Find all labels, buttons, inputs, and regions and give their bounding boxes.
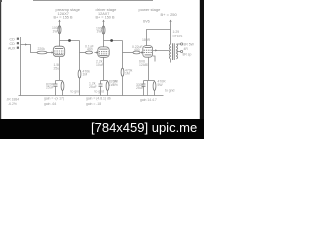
svg-text:B+ = 155 B: B+ = 155 B	[54, 15, 73, 19]
node junction dot 1	[68, 39, 71, 42]
tube V1 triode	[53, 46, 64, 56]
svg-text:to gnd: to gnd	[95, 89, 105, 93]
label cathode1 network	[46, 82, 55, 89]
wire plate2 node	[104, 40, 123, 42]
svg-text:1M: 1M	[83, 73, 88, 77]
svg-text:1W: 1W	[53, 29, 59, 33]
label cathode2 network	[89, 80, 117, 89]
node B+ stage1 arrow	[59, 20, 61, 46]
svg-text:12AB5: 12AB5	[139, 63, 149, 67]
wire cathode1	[59, 57, 61, 80]
wire input tap	[21, 45, 38, 53]
svg-text:25uF: 25uF	[46, 86, 54, 90]
svg-text:AUX: AUX	[8, 46, 16, 50]
arrow tube1 grid	[52, 51, 54, 53]
arrowhead B+ stage3	[169, 20, 171, 22]
arrow tube3 grid	[141, 51, 143, 53]
node junction dot 2	[110, 39, 113, 42]
svg-text:8R 5W: 8R 5W	[184, 42, 195, 46]
resistor R-gridleak2	[122, 53, 124, 96]
label R-plate1	[52, 26, 60, 33]
arrowhead B+ stage2	[102, 20, 104, 22]
svg-text:CD: CD	[10, 37, 16, 41]
arrow tube2 grid	[96, 51, 98, 53]
terminal speaker plus	[181, 43, 183, 45]
cathode1 RC network	[54, 81, 64, 96]
wire plate3 to transformer	[147, 30, 171, 46]
wire to tube1 grid	[47, 52, 54, 54]
transformer T1 primary	[170, 44, 171, 59]
svg-text:JR 1884: JR 1884	[7, 97, 20, 101]
svg-text:gain = (4.8.1) db: gain = (4.8.1) db	[86, 97, 111, 101]
svg-text:5%: 5%	[113, 83, 118, 87]
cathode3 RC network	[142, 81, 156, 96]
watermark bar	[0, 119, 204, 139]
border frame	[0, 0, 204, 139]
label cathode2	[96, 59, 104, 67]
svg-text:-6.2%: -6.2%	[8, 102, 17, 106]
svg-text:400: 400	[87, 48, 93, 52]
svg-text:OT10S: OT10S	[173, 34, 183, 38]
label cathode3 network	[136, 80, 166, 91]
wire screen tap g2 to primary	[153, 49, 169, 51]
wire primary bottom tail	[170, 59, 172, 63]
cathode2 RC network	[99, 81, 109, 96]
svg-text:1W: 1W	[97, 30, 103, 34]
svg-text:4R: 4R	[184, 47, 189, 51]
svg-text:25uF: 25uF	[89, 85, 97, 89]
arrowhead B+ stage1	[58, 20, 60, 22]
resistor R-plate2	[102, 26, 105, 34]
svg-text:8R sp: 8R sp	[183, 52, 192, 56]
svg-text:B+ = 150 B: B+ = 150 B	[96, 15, 115, 19]
svg-text:5W: 5W	[158, 83, 164, 87]
resistor R-gridleak1	[79, 53, 81, 96]
node B+ stage3 arrow	[170, 20, 172, 44]
label R-plate2	[96, 26, 104, 33]
resistor R-grid1	[37, 51, 47, 54]
wire coupling corner 2	[122, 41, 124, 53]
svg-text:400: 400	[134, 48, 140, 52]
label C-coupling2	[132, 45, 143, 52]
transformer T1 core	[173, 43, 175, 60]
arrow input tap	[25, 43, 27, 45]
capacitor C-coupling1	[86, 51, 93, 54]
label cathode1	[54, 63, 61, 71]
svg-text:220k: 220k	[38, 47, 46, 51]
wire coupling corner 1	[79, 41, 81, 53]
ground bus	[19, 95, 164, 97]
svg-text:to gnd: to gnd	[165, 88, 175, 92]
wire secondary bottom	[177, 51, 181, 53]
svg-text:1M: 1M	[125, 72, 130, 76]
wire cathode3	[148, 57, 150, 80]
wire cathode2	[103, 57, 105, 80]
svg-text:gain = -(x 17): gain = -(x 17)	[44, 97, 64, 101]
label R-gridleak2	[113, 68, 133, 86]
wire to tube3	[141, 52, 144, 54]
transformer T1 secondary	[177, 44, 178, 59]
svg-text:6V6: 6V6	[143, 19, 150, 23]
wire to tube2	[95, 52, 99, 54]
svg-text:gain -64: gain -64	[44, 102, 56, 106]
svg-text:to gnd: to gnd	[71, 89, 81, 93]
wire coupling1 horizontal	[80, 52, 86, 54]
wire secondary top	[177, 43, 181, 45]
tube V3 pentode	[143, 46, 153, 58]
svg-text:10uF: 10uF	[96, 63, 104, 67]
svg-text:B+ = 250: B+ = 250	[161, 12, 178, 17]
input jack labels	[8, 37, 19, 50]
resistor R-plate1	[58, 26, 61, 34]
node B+ stage2 arrow	[103, 20, 105, 47]
svg-text:power stage: power stage	[139, 7, 162, 12]
stage1 header text	[54, 7, 81, 19]
stage3 header text	[139, 7, 178, 23]
wire plate1 node	[60, 40, 80, 42]
svg-text:CD: CD	[10, 42, 16, 46]
svg-text:25u: 25u	[54, 67, 60, 71]
wire coupling2 horizontal	[123, 52, 134, 54]
terminal speaker minus	[181, 50, 183, 52]
stage2 header text	[96, 7, 118, 19]
input ground bus wire	[20, 37, 22, 96]
svg-text:gain 14.4.7: gain 14.4.7	[140, 98, 157, 102]
wire suppressor tie	[153, 56, 155, 62]
label transformer	[173, 30, 183, 38]
svg-text:25uF: 25uF	[136, 86, 144, 90]
label C-coupling1	[85, 45, 94, 52]
svg-text:180R: 180R	[142, 38, 151, 42]
label R-gridleak1	[83, 69, 91, 76]
tube V2 triode	[98, 47, 109, 57]
svg-text:gain = -18: gain = -18	[86, 102, 101, 106]
capacitor C-coupling2	[133, 51, 140, 54]
label notes below bus	[7, 88, 175, 106]
arrow screen tap	[155, 49, 157, 51]
label tube3 name	[139, 59, 149, 66]
label speaker	[183, 42, 195, 56]
